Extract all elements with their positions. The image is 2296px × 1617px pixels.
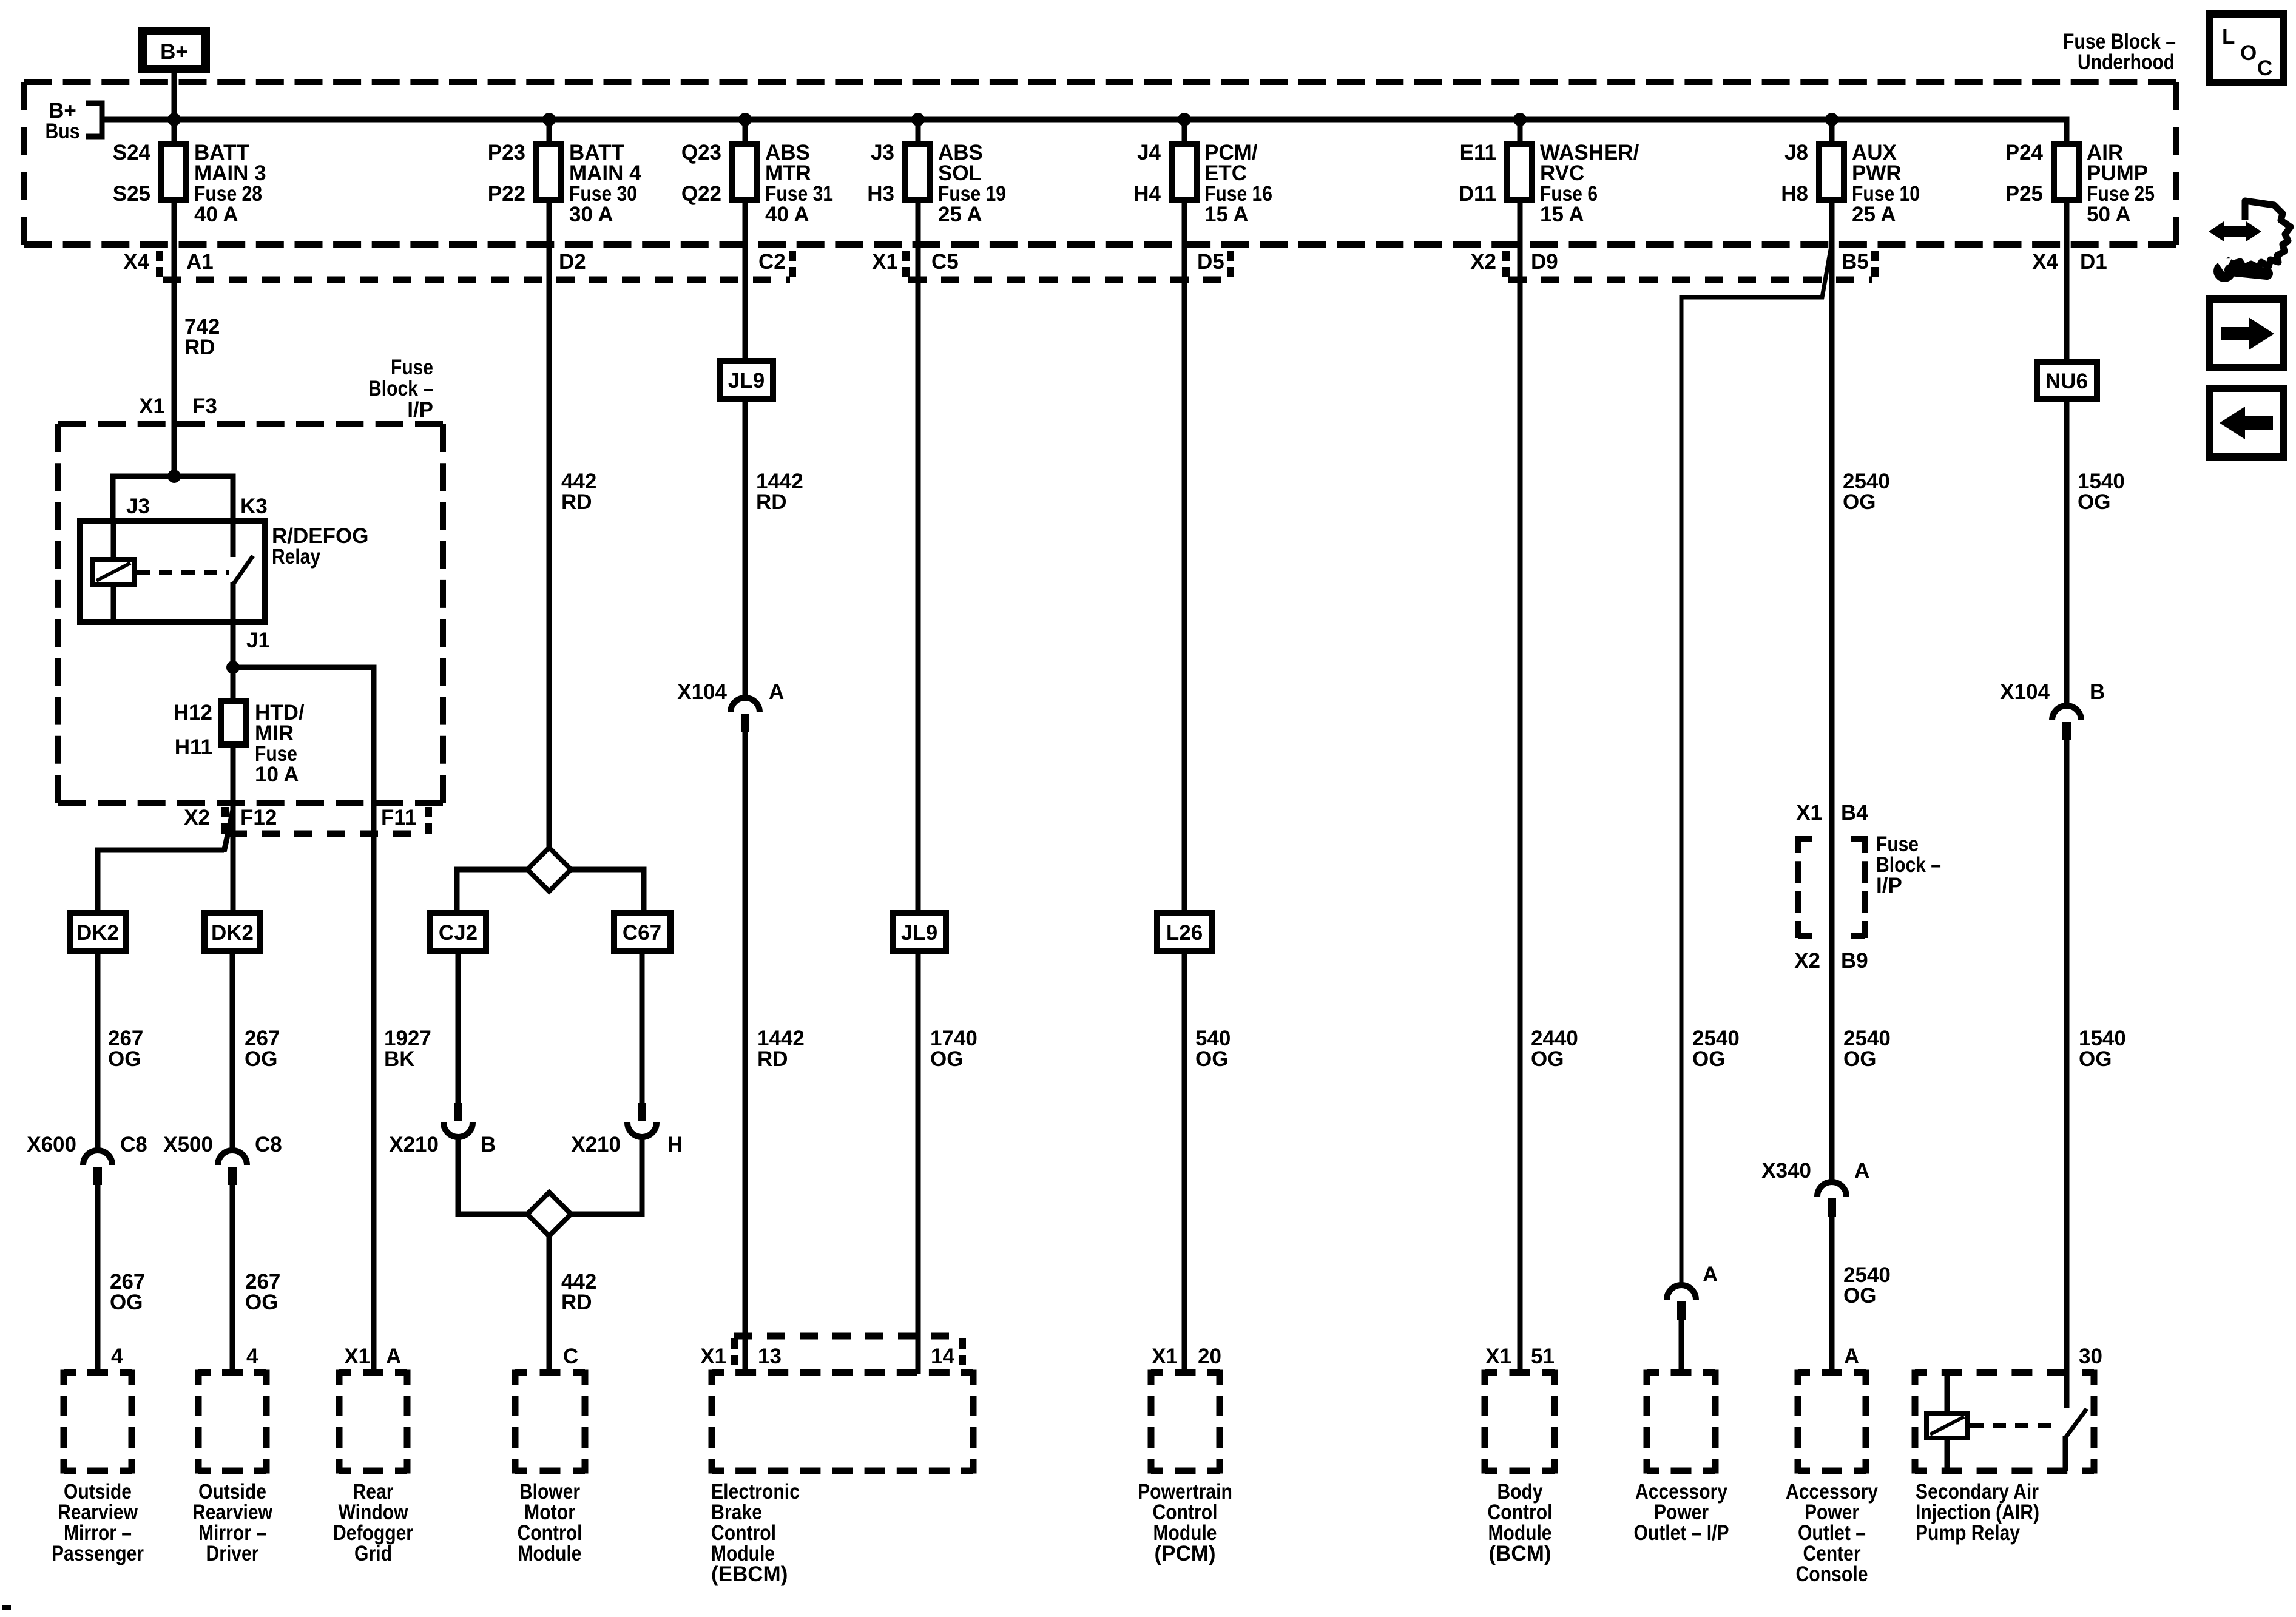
svg-text:RD: RD — [561, 1291, 592, 1314]
connector X1 pin B4 labels — [1796, 801, 1868, 825]
svg-text:Underhood: Underhood — [2078, 50, 2175, 74]
svg-text:O: O — [2240, 41, 2257, 65]
RPO JL9 box lower — [893, 913, 946, 951]
wire label 540 OG — [1195, 1027, 1231, 1071]
svg-text:40 A: 40 A — [194, 203, 238, 226]
wire 1740 OG to EBCM pin 14 — [916, 951, 921, 1374]
svg-text:OG: OG — [1843, 1047, 1876, 1071]
svg-text:4: 4 — [111, 1345, 123, 1368]
svg-text:J3: J3 — [126, 495, 150, 518]
Outside Rearview Mirror - Passenger box — [64, 1370, 132, 1474]
svg-text:X104: X104 — [677, 680, 727, 704]
caption Powertrain Control Module (PCM) — [1138, 1480, 1232, 1565]
svg-text:D5: D5 — [1197, 250, 1224, 274]
svg-text:OG: OG — [2079, 1047, 2112, 1071]
svg-text:X104: X104 — [2000, 680, 2050, 704]
svg-text:RD: RD — [184, 336, 215, 359]
svg-text:RD: RD — [756, 490, 787, 514]
svg-text:F12: F12 — [240, 806, 277, 829]
EBCM connector band dotted line — [734, 1333, 962, 1340]
svg-text:Q23: Q23 — [681, 141, 721, 164]
fuse 10 AUX PWR 25A — [1781, 120, 1920, 226]
svg-text:B: B — [481, 1133, 496, 1156]
svg-text:B5: B5 — [1842, 250, 1869, 274]
svg-text:B+: B+ — [160, 40, 188, 64]
wire label 1442 RD — [756, 470, 803, 514]
svg-text:OG: OG — [110, 1291, 143, 1314]
wire branch B5 to outlet I/P — [1681, 243, 1832, 1285]
fuse 31 ABS MTR 40A — [681, 120, 833, 226]
svg-text:J4: J4 — [1137, 141, 1161, 164]
svg-text:BK: BK — [384, 1047, 415, 1071]
svg-text:X2: X2 — [1794, 949, 1820, 973]
wire 1442 RD to EBCM pin 13 — [743, 732, 748, 1374]
svg-text:H3: H3 — [867, 182, 894, 206]
svg-text:(PCM): (PCM) — [1154, 1542, 1215, 1565]
AIR relay switch — [2065, 1409, 2087, 1471]
fuse 6 WASHER/RVC 15A — [1459, 120, 1639, 226]
connector X2 pin B9 labels — [1794, 949, 1868, 973]
caption Secondary Air Injection (AIR) Pump Relay — [1916, 1480, 2039, 1545]
inline connector X210 pin B — [389, 1103, 496, 1156]
wire label 1740 OG — [930, 1027, 977, 1071]
separator before F12 — [221, 807, 229, 835]
wire 442 RD fuse30 down — [547, 200, 552, 849]
svg-text:C2: C2 — [758, 250, 786, 274]
svg-text:DK2: DK2 — [211, 921, 254, 945]
svg-text:F3: F3 — [192, 394, 217, 418]
svg-text:C67: C67 — [623, 921, 661, 945]
svg-text:Relay: Relay — [272, 545, 320, 569]
svg-text:Pump Relay: Pump Relay — [1916, 1521, 2020, 1545]
svg-text:OG: OG — [108, 1047, 141, 1071]
svg-text:Q22: Q22 — [681, 182, 721, 206]
connector X1 pin A labels — [344, 1345, 401, 1368]
svg-text:OG: OG — [1195, 1047, 1228, 1071]
wire splice branches upper — [457, 869, 644, 916]
wire label 2540 OG main — [1843, 470, 1890, 514]
svg-text:OG: OG — [1843, 490, 1876, 514]
RPO DK2 box driver — [204, 913, 260, 951]
RPO CJ2 box — [430, 913, 486, 951]
svg-text:D2: D2 — [559, 250, 586, 274]
svg-text:OG: OG — [245, 1047, 277, 1071]
svg-text:Block –: Block – — [368, 377, 433, 400]
RPO DK2 box passenger — [70, 913, 126, 951]
svg-text:H: H — [667, 1133, 683, 1156]
svg-text:X1: X1 — [1796, 801, 1822, 825]
svg-text:X340: X340 — [1761, 1159, 1811, 1183]
wire B+ bus bar — [102, 120, 2067, 144]
svg-text:40 A: 40 A — [765, 203, 809, 226]
separator after C2 — [789, 251, 796, 280]
svg-text:A: A — [1844, 1345, 1859, 1368]
svg-text:I/P: I/P — [407, 398, 433, 422]
svg-text:4: 4 — [246, 1345, 258, 1368]
inline connector X340 pin A — [1761, 1159, 1869, 1217]
RPO C67 box — [614, 913, 670, 951]
caption Body Control Module (BCM) — [1488, 1480, 1553, 1565]
svg-text:H12: H12 — [174, 701, 212, 724]
svg-text:A: A — [386, 1345, 401, 1368]
svg-text:50 A: 50 A — [2087, 203, 2131, 226]
wire label 442 RD — [561, 1270, 596, 1314]
svg-text:J1: J1 — [246, 629, 270, 652]
wire label 1540 OG — [2078, 470, 2125, 514]
connector band dotted line D9-B5 — [1508, 277, 1872, 283]
caption Outside Rearview Mirror - Passenger — [52, 1480, 144, 1565]
wire 267 OG passenger — [95, 951, 101, 1150]
splice diamond lower — [527, 1192, 571, 1236]
Blower Motor Control Module box — [515, 1370, 585, 1474]
svg-text:X1: X1 — [700, 1345, 726, 1368]
svg-text:K3: K3 — [240, 495, 268, 518]
svg-text:51: 51 — [1531, 1345, 1555, 1368]
svg-text:14: 14 — [931, 1345, 954, 1368]
inline connector X500 pin C8 — [163, 1133, 282, 1185]
Secondary Air Injection Pump Relay box — [1915, 1370, 2094, 1474]
wire 540 OG to PCM — [1182, 951, 1187, 1374]
svg-text:Driver: Driver — [206, 1542, 259, 1565]
svg-text:X1: X1 — [1485, 1345, 1511, 1368]
separator right of 14 — [959, 1338, 966, 1365]
svg-text:RD: RD — [561, 490, 592, 514]
wire 1927 BK to defogger grid — [371, 834, 377, 1374]
svg-text:J8: J8 — [1784, 141, 1808, 164]
label Fuse Block - I/P — [1876, 832, 1941, 897]
svg-text:X210: X210 — [571, 1133, 621, 1156]
wire J1 to F11 branch — [233, 667, 374, 835]
svg-text:H8: H8 — [1781, 182, 1808, 206]
fuse 30 BATT MAIN 4 30A — [488, 120, 641, 226]
wire label 1927 BK — [384, 1027, 431, 1071]
svg-text:A: A — [1854, 1159, 1869, 1183]
svg-text:D1: D1 — [2080, 250, 2107, 274]
svg-text:JL9: JL9 — [901, 921, 937, 945]
R/DEFOG relay box — [80, 521, 265, 622]
connector X1 pin 20 labels — [1152, 1345, 1221, 1368]
svg-text:P24: P24 — [2005, 141, 2044, 164]
svg-text:30 A: 30 A — [569, 203, 613, 226]
RPO L26 box — [1157, 913, 1212, 951]
svg-text:OG: OG — [1843, 1284, 1876, 1308]
wire 540 OG fuse16 to L26 — [1182, 200, 1187, 914]
svg-text:B: B — [2090, 680, 2105, 704]
junction on bus at ABS SOL — [911, 113, 925, 126]
caption Outside Rearview Mirror - Driver — [192, 1480, 273, 1565]
wire to outlet I/P — [1679, 1320, 1684, 1374]
junction on bus at ABS MTR — [738, 113, 752, 126]
svg-text:CJ2: CJ2 — [439, 921, 478, 945]
Fuse Block - I/P dashed box — [58, 424, 443, 803]
svg-text:X2: X2 — [184, 806, 210, 829]
Body Control Module box — [1485, 1370, 1555, 1474]
svg-text:C8: C8 — [255, 1133, 282, 1156]
svg-text:P25: P25 — [2005, 182, 2043, 206]
wire 2540 OG fuse10 down — [1829, 200, 1835, 1182]
Accessory Power Outlet - I/P box — [1647, 1370, 1715, 1474]
back arrow legend box — [2210, 388, 2283, 457]
svg-text:Bus: Bus — [46, 120, 80, 143]
svg-text:OG: OG — [2078, 490, 2110, 514]
svg-text:Module: Module — [518, 1542, 582, 1565]
page corner mark — [2, 1605, 11, 1610]
separator after X4 — [156, 251, 163, 280]
svg-text:OG: OG — [1692, 1047, 1725, 1071]
wire 267 OG driver — [230, 951, 235, 1150]
wire label 442 RD — [561, 470, 596, 514]
wire label 267 OG — [110, 1270, 145, 1314]
fuse 16 PCM/ETC 15A — [1133, 120, 1272, 226]
fuse HTD/MIR 10A — [174, 667, 305, 786]
svg-text:20: 20 — [1198, 1345, 1221, 1368]
svg-text:C8: C8 — [120, 1133, 147, 1156]
RPO NU6 box — [2037, 362, 2097, 399]
splice diamond upper — [527, 848, 571, 891]
svg-text:RD: RD — [757, 1047, 788, 1071]
separator left of 13 — [731, 1338, 738, 1365]
label Fuse Block - I/P — [368, 356, 433, 422]
junction on bus at PCM/ETC — [1178, 113, 1191, 126]
svg-text:L26: L26 — [1166, 921, 1203, 945]
svg-text:A: A — [769, 680, 784, 704]
connector X1 pin 13 pin 14 labels — [700, 1345, 954, 1368]
svg-text:D9: D9 — [1531, 250, 1558, 274]
svg-text:X4: X4 — [2032, 250, 2058, 274]
Accessory Power Outlet - Center Console box — [1798, 1370, 1866, 1474]
inline connector X600 pin C8 — [27, 1133, 147, 1185]
svg-text:X2: X2 — [1470, 250, 1496, 274]
svg-text:30: 30 — [2079, 1345, 2102, 1368]
wire fuse HTD/MIR down — [231, 744, 236, 914]
wire label 267 OG — [245, 1027, 280, 1071]
wire C67 to X210 H — [640, 951, 645, 1103]
svg-text:B9: B9 — [1841, 949, 1868, 973]
svg-text:JL9: JL9 — [728, 369, 765, 393]
svg-text:(BCM): (BCM) — [1488, 1542, 1551, 1565]
wire 1442 RD fuse31 to JL9 — [743, 200, 748, 362]
caption Accessory Power Outlet - Center Console — [1786, 1480, 1878, 1586]
caption Rear Window Defogger Grid — [333, 1480, 413, 1565]
inline connector X104 pin A — [677, 680, 784, 732]
svg-text:P22: P22 — [488, 182, 525, 206]
connector X1 pin 51 labels — [1485, 1345, 1555, 1368]
connector X4 pin A1 labels — [123, 250, 214, 274]
svg-text:L: L — [2222, 25, 2235, 49]
connector band dotted line F12-F11 — [229, 831, 425, 837]
svg-text:C: C — [563, 1345, 578, 1368]
svg-text:X500: X500 — [163, 1133, 213, 1156]
wire label 742 RD — [184, 315, 220, 359]
relay coil — [93, 521, 134, 622]
junction on bus at BATT MAIN 3 — [167, 113, 181, 126]
caption Electronic Brake Control Module (EBCM) — [711, 1480, 800, 1586]
wire 267 OG to driver mirror — [230, 1185, 235, 1374]
svg-text:15 A: 15 A — [1204, 203, 1249, 226]
AIR relay actuation dashed link — [1970, 1423, 2058, 1428]
svg-text:F11: F11 — [381, 806, 416, 829]
svg-text:25 A: 25 A — [938, 203, 982, 226]
wire 267 OG to passenger mirror — [95, 1185, 101, 1374]
Fuse Block - Underhood dashed box — [24, 82, 2176, 245]
svg-text:X210: X210 — [389, 1133, 439, 1156]
power distribution icon (outline, double arrow, wrench) — [2209, 201, 2291, 282]
wire X340 to center console outlet — [1829, 1217, 1835, 1374]
separator after F11 — [425, 807, 432, 835]
RPO JL9 box upper — [720, 361, 773, 399]
wire label 2540 OG below fuse block — [1843, 1027, 1891, 1071]
svg-text:B4: B4 — [1841, 801, 1868, 825]
wire branch to passenger mirror — [98, 810, 233, 914]
wire label 1540 OG lower — [2079, 1027, 2126, 1071]
wire label 1442 RD — [757, 1027, 805, 1071]
wire CJ2 to X210 B — [456, 951, 461, 1103]
wire splice branches lower — [458, 1137, 642, 1214]
node J3/K3 junction — [167, 470, 181, 483]
separator after X2 — [1502, 251, 1510, 280]
svg-text:C: C — [2257, 56, 2272, 80]
label R/DEFOG Relay — [272, 524, 368, 569]
connector X1 pin C5 labels — [872, 250, 959, 274]
relay switch — [233, 521, 253, 670]
svg-text:A1: A1 — [186, 250, 214, 274]
svg-text:OG: OG — [1531, 1047, 1564, 1071]
relay actuation dashed link — [137, 570, 229, 575]
svg-text:C5: C5 — [931, 250, 959, 274]
fuse 25 AIR PUMP 50A — [2005, 141, 2155, 226]
connector X1 pin F3 labels — [139, 394, 217, 418]
Outside Rearview Mirror - Driver box — [198, 1370, 266, 1474]
AIR relay coil — [1926, 1372, 1968, 1471]
caption Blower Motor Control Module — [518, 1480, 582, 1565]
svg-text:10 A: 10 A — [255, 763, 299, 786]
svg-text:X1: X1 — [139, 394, 165, 418]
connector X4 pin D1 labels — [2032, 250, 2107, 274]
connector X2 pin D9 labels — [1470, 250, 1558, 274]
svg-text:Outlet – I/P: Outlet – I/P — [1634, 1521, 1729, 1545]
svg-text:A: A — [1703, 1263, 1718, 1286]
svg-text:X600: X600 — [27, 1133, 76, 1156]
connector band dotted line A1-C2 — [163, 277, 790, 283]
wire 442 RD to blower module — [547, 1236, 552, 1374]
svg-text:OG: OG — [245, 1291, 278, 1314]
wire to relay pins — [113, 476, 233, 522]
inline connector X210 pin H — [571, 1103, 683, 1156]
svg-text:S25: S25 — [113, 182, 150, 206]
wire label 267 OG — [108, 1027, 143, 1071]
Rear Window Defogger Grid box — [339, 1370, 407, 1474]
node J1 junction — [226, 661, 240, 674]
wire 2440 OG fuse6 to BCM — [1518, 200, 1523, 1374]
junction on bus at WASHER/RVC — [1513, 113, 1527, 126]
svg-text:X4: X4 — [123, 250, 149, 274]
wire 1540 OG to AIR pump relay pin 30 — [2064, 740, 2070, 1408]
Fuse Block - I/P pass-through dashed box — [1798, 836, 1865, 938]
svg-text:(EBCM): (EBCM) — [711, 1562, 788, 1586]
wire B+ to bus — [172, 72, 177, 122]
separator after B5 — [1871, 251, 1879, 280]
svg-text:Grid: Grid — [354, 1542, 392, 1565]
svg-text:J3: J3 — [871, 141, 894, 164]
svg-text:15 A: 15 A — [1540, 203, 1584, 226]
label Fuse Block - Underhood — [2063, 30, 2176, 74]
fuse 19 ABS SOL 25A — [867, 120, 1006, 226]
svg-text:OG: OG — [930, 1047, 963, 1071]
connector band dotted line C5-D5 — [908, 277, 1228, 283]
wire label 2440 OG — [1531, 1027, 1578, 1071]
svg-text:DK2: DK2 — [76, 921, 119, 945]
separator after X1 — [902, 251, 910, 280]
B+ Bus bracket — [86, 103, 102, 137]
inline connector X104 pin B — [2000, 680, 2105, 740]
wire JL9 to X104 A — [743, 399, 748, 698]
svg-text:Fuse: Fuse — [391, 356, 433, 379]
svg-text:D11: D11 — [1459, 182, 1496, 206]
svg-text:I/P: I/P — [1876, 874, 1902, 897]
forward arrow legend box — [2210, 299, 2283, 368]
svg-text:X1: X1 — [1152, 1345, 1178, 1368]
B+ power symbol — [143, 31, 206, 69]
svg-text:Console: Console — [1796, 1562, 1868, 1586]
svg-text:S24: S24 — [113, 141, 151, 164]
svg-text:X1: X1 — [872, 250, 898, 274]
junction on bus at BATT MAIN 4 — [542, 113, 556, 126]
wire label 2540 OG lower — [1843, 1263, 1891, 1308]
separator after D5 — [1227, 251, 1234, 280]
wire NU6 to X104 B — [2064, 398, 2070, 706]
svg-text:P23: P23 — [488, 141, 525, 164]
svg-text:X1: X1 — [344, 1345, 370, 1368]
wire 742 RD fuse28 to I/P block — [172, 200, 177, 476]
wire 1540 OG fuse25 to NU6 — [2064, 200, 2070, 363]
Powertrain Control Module box — [1151, 1370, 1220, 1474]
LOC legend box — [2210, 14, 2283, 83]
node B+ Bus label — [46, 99, 80, 143]
svg-text:13: 13 — [758, 1345, 782, 1368]
connector X2 pin F12 F11 labels — [184, 806, 416, 829]
wire label 267 OG — [245, 1270, 280, 1314]
junction on bus at AUX PWR — [1825, 113, 1838, 126]
wire label 2540 OG branch — [1692, 1027, 1740, 1071]
Electronic Brake Control Module box — [712, 1370, 973, 1474]
svg-text:E11: E11 — [1460, 141, 1496, 164]
inline connector pin A outlet I/P — [1667, 1263, 1718, 1320]
svg-text:Passenger: Passenger — [52, 1542, 144, 1565]
wire 1740 OG fuse19 to JL9 — [916, 200, 921, 914]
svg-text:H11: H11 — [175, 735, 212, 759]
fuse 28 BATT MAIN 3 40A — [113, 120, 266, 226]
svg-text:H4: H4 — [1133, 182, 1161, 206]
svg-text:25 A: 25 A — [1852, 203, 1896, 226]
caption Accessory Power Outlet - I/P — [1634, 1480, 1729, 1545]
svg-text:NU6: NU6 — [2045, 370, 2088, 393]
